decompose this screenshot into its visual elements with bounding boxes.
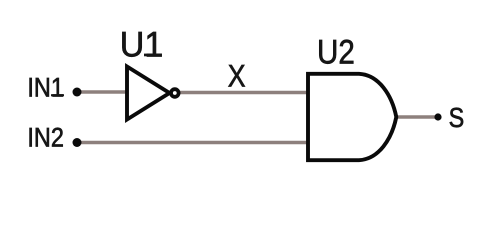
AND gate U2 body bbox=[308, 74, 396, 160]
svg-text:U1: U1 bbox=[120, 24, 164, 64]
junction dot IN1 bbox=[73, 88, 82, 97]
serif foot of IN1 digit 1 bbox=[51, 94, 64, 96]
wire U2 output to S bbox=[395, 115, 438, 119]
serif foot of U1 digit 1 bbox=[144, 54, 161, 57]
junction dot IN2 bbox=[73, 138, 82, 147]
wire IN2 to U2 lower input bbox=[77, 141, 308, 145]
wire IN1 to U1 input bbox=[77, 90, 129, 94]
svg-text:IN2: IN2 bbox=[27, 122, 64, 152]
inverter U1 bubble bbox=[171, 89, 179, 97]
junction dot S bbox=[434, 113, 441, 120]
svg-text:X: X bbox=[228, 57, 246, 93]
svg-text:S: S bbox=[449, 102, 465, 133]
svg-text:U2: U2 bbox=[317, 33, 355, 71]
wire X: U1 output to U2 upper input bbox=[179, 91, 308, 95]
inverter U1 triangle bbox=[127, 67, 170, 120]
svg-text:IN1: IN1 bbox=[27, 72, 64, 102]
